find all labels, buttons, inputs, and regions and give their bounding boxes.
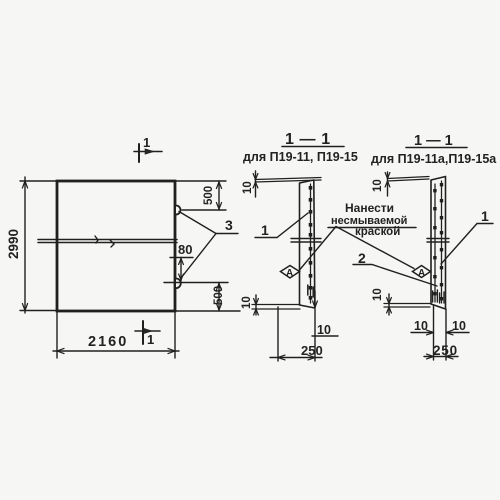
section B top dim 10 arrows bbox=[385, 173, 390, 179]
section A top dim 10 arrow bbox=[253, 174, 258, 180]
section B dim 250: dimension line bbox=[424, 356, 458, 358]
svg-text:10: 10 bbox=[317, 323, 331, 337]
section A bottom-left dim 10 arrows bbox=[254, 299, 259, 305]
svg-text:А: А bbox=[286, 268, 293, 279]
dim 500 bottom: extension of panel bottom edge bbox=[175, 310, 240, 312]
svg-text:10: 10 bbox=[372, 288, 384, 301]
section A bottom-right dim 10: vertical line with down arrow bbox=[314, 291, 316, 308]
section A top dim 10: extension lines bbox=[255, 178, 321, 183]
mark diamond A (section B) bbox=[413, 266, 431, 278]
leader 2 bbox=[353, 265, 437, 287]
section A dim10 underline bbox=[312, 335, 338, 337]
dim 2990: dimension line bbox=[24, 177, 26, 313]
svg-text:для П19-11, П19-15: для П19-11, П19-15 bbox=[243, 150, 358, 164]
section B outline bbox=[431, 177, 446, 310]
section B top dim 10: vertical dim line bbox=[387, 172, 389, 196]
svg-text:1: 1 bbox=[261, 222, 269, 238]
svg-text:1 — 1: 1 — 1 bbox=[414, 133, 453, 149]
svg-text:2160: 2160 bbox=[88, 334, 128, 350]
section A rebar line bbox=[310, 184, 312, 303]
section mark 1 (bottom): cut line bbox=[142, 321, 144, 344]
svg-text:10: 10 bbox=[414, 319, 428, 333]
section A bottom-left dim 10: vertical dim line bbox=[255, 295, 257, 315]
section A bottom-left dim 10: extension lines bbox=[252, 305, 300, 310]
dim 2160: arrows bbox=[57, 348, 64, 353]
dim 80: vertical line bbox=[180, 258, 182, 282]
svg-text:1: 1 bbox=[481, 208, 489, 224]
mark diamond A (section A) bbox=[281, 266, 300, 279]
section A rebar end hooks bbox=[308, 285, 313, 297]
lifting hook top (pos.3) bbox=[176, 206, 181, 215]
svg-text:10: 10 bbox=[241, 296, 253, 309]
section mark 1 (bottom): arrow line bbox=[135, 330, 160, 332]
dim 80: tick line bbox=[170, 257, 193, 259]
dim 2990: arrows bbox=[22, 181, 27, 188]
dim 500 bottom: dimension line bbox=[218, 283, 220, 312]
section A dim 250: dimension line bbox=[270, 357, 322, 359]
section A outline bbox=[300, 180, 315, 308]
section A dim 250: extension lines bbox=[277, 307, 279, 361]
section A top dim 10: vertical dim line bbox=[255, 171, 257, 197]
svg-text:10: 10 bbox=[452, 319, 466, 333]
dim 500 top: dimension line bbox=[218, 181, 220, 210]
dim 2160: dimension line bbox=[53, 350, 179, 352]
note underline bbox=[328, 227, 416, 229]
section B dim 250 arrows bbox=[427, 354, 434, 359]
section mark 1 (top): arrow line bbox=[134, 151, 162, 153]
section B bottom-left dim 10 arrows bbox=[387, 298, 392, 304]
header underline 1-1 left bbox=[282, 146, 344, 148]
section B rebar line left bbox=[434, 184, 436, 302]
dim 500 top arrows bbox=[216, 182, 221, 189]
section A rebar dots bbox=[309, 186, 313, 300]
section mark 1 (top): cut line bbox=[138, 144, 140, 162]
break zigzag bbox=[95, 236, 114, 247]
dim 2160: extension lines bbox=[56, 311, 58, 358]
svg-text:80: 80 bbox=[178, 242, 192, 257]
dim 500 top: extension of panel top edge bbox=[175, 180, 226, 182]
panel outline (plan view) bbox=[57, 181, 175, 311]
section B bottom-left dim 10: extension lines bbox=[384, 304, 430, 308]
svg-text:2: 2 bbox=[358, 250, 366, 266]
section B dim 10 right line bbox=[446, 332, 469, 334]
svg-text:250: 250 bbox=[433, 343, 458, 358]
leader 3 bbox=[216, 233, 238, 235]
section B top dim 10: extension lines bbox=[388, 177, 430, 182]
leader 1 (section A) bbox=[255, 213, 308, 238]
svg-text:500: 500 bbox=[203, 186, 215, 205]
dim 500 top: extension line at hook level bbox=[182, 209, 226, 211]
dim 80 arrows bbox=[179, 259, 184, 265]
svg-text:А: А bbox=[418, 268, 425, 279]
header underline 1-1 right bbox=[406, 147, 467, 149]
section B dim 10 left line bbox=[411, 332, 434, 334]
svg-text:10: 10 bbox=[242, 181, 254, 194]
svg-text:500: 500 bbox=[213, 286, 225, 305]
panel break lines bbox=[38, 239, 177, 241]
leader 1 (section B) bbox=[441, 224, 493, 265]
svg-text:Нанести: Нанести bbox=[345, 201, 394, 215]
svg-text:краской: краской bbox=[355, 226, 400, 238]
svg-text:для П19-11а,П19-15а: для П19-11а,П19-15а bbox=[371, 152, 497, 166]
section B bottom-left dim 10: vertical dim line bbox=[388, 294, 390, 315]
dim 2990: extension lines bbox=[20, 180, 57, 182]
dim 500 bottom arrows bbox=[216, 284, 221, 291]
section B rebar dots bbox=[433, 183, 443, 300]
svg-text:2990: 2990 bbox=[6, 229, 21, 259]
section A break lines bbox=[291, 239, 321, 243]
leader from paint note to diamond A (section B) bbox=[336, 227, 414, 269]
svg-text:3: 3 bbox=[225, 217, 233, 233]
section B break lines bbox=[427, 239, 449, 243]
svg-text:10: 10 bbox=[372, 179, 384, 192]
svg-text:1 — 1: 1 — 1 bbox=[285, 131, 331, 148]
section B bottom extensions bbox=[433, 306, 435, 360]
svg-text:1: 1 bbox=[147, 332, 154, 347]
section B rebar line right bbox=[441, 181, 443, 303]
dim 500 bottom: extension at hook level bbox=[164, 282, 228, 284]
leader from paint note to diamond A (section A) bbox=[300, 227, 337, 271]
svg-text:1: 1 bbox=[143, 135, 150, 150]
section B rebar end hooks bbox=[433, 290, 444, 303]
section A dim 250 arrows bbox=[278, 355, 285, 360]
lifting hook bottom (pos.3) bbox=[176, 279, 181, 289]
svg-text:250: 250 bbox=[301, 343, 323, 358]
